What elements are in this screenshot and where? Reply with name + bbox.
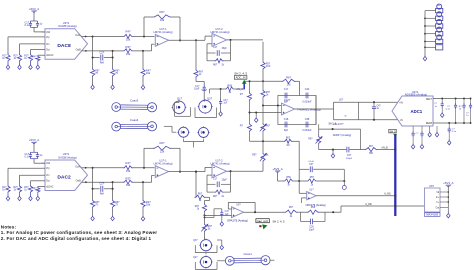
svg-text:0.1u: 0.1u <box>25 24 30 27</box>
svg-text:10k: 10k <box>146 71 151 75</box>
svg-text:1M: 1M <box>286 145 289 147</box>
svg-text:-IN: -IN <box>400 120 403 122</box>
svg-text:Coax1: Coax1 <box>243 252 252 256</box>
svg-text:OPA27$ (Analog): OPA27$ (Analog) <box>227 218 248 222</box>
svg-text:R3?: R3? <box>126 176 131 180</box>
svg-text:49.9: 49.9 <box>266 66 271 68</box>
svg-text:12k: 12k <box>160 18 165 22</box>
svg-text:C2?: C2? <box>99 182 104 186</box>
svg-text:15k: 15k <box>126 183 131 187</box>
svg-text:10uF: 10uF <box>194 88 200 90</box>
svg-text:R6?: R6? <box>308 139 313 141</box>
svg-text:OutB: OutB <box>76 48 82 51</box>
svg-text:R6?: R6? <box>213 196 218 198</box>
svg-text:C17: C17 <box>284 88 289 91</box>
svg-text:R66: R66 <box>227 84 232 87</box>
svg-text:MAX4165: MAX4165 <box>426 213 438 217</box>
svg-text:SH 2, 4, 5: SH 2, 4, 5 <box>234 72 247 76</box>
svg-text:0.1u: 0.1u <box>25 155 30 158</box>
svg-text:AD81? (Analog): AD81? (Analog) <box>333 133 352 137</box>
svg-text:R5?: R5? <box>289 207 294 209</box>
svg-text:R5?: R5? <box>310 177 315 179</box>
svg-text:LM741 (Analog): LM741 (Analog) <box>153 30 172 34</box>
svg-text:DAC8: DAC8 <box>57 43 71 49</box>
svg-text:Q2?: Q2? <box>207 97 213 101</box>
svg-text:Ref: Ref <box>100 192 104 196</box>
svg-text:nLDAC: nLDAC <box>46 185 54 188</box>
svg-text:Vdd: Vdd <box>46 32 51 34</box>
svg-text:C1?: C1? <box>213 178 218 180</box>
svg-text:U9?: U9? <box>236 205 241 207</box>
svg-text:R4?: R4? <box>32 57 37 59</box>
svg-text:OutA: OutA <box>75 34 81 37</box>
svg-text:Out: Out <box>46 48 50 51</box>
svg-text:R4?: R4? <box>126 161 131 165</box>
svg-text:LM741 (Analog): LM741 (Analog) <box>210 30 229 34</box>
svg-text:15k: 15k <box>126 52 131 56</box>
svg-text:R3?: R3? <box>126 45 131 49</box>
svg-text:10k: 10k <box>146 202 151 206</box>
svg-text:+5V3_A: +5V3_A <box>29 138 39 142</box>
svg-text:1uF: 1uF <box>225 214 230 216</box>
svg-text:Out: Out <box>46 180 50 183</box>
svg-text:DAC2: DAC2 <box>57 174 71 180</box>
svg-text:Out: Out <box>435 206 439 209</box>
svg-text:SH 2, 4, 5: SH 2, 4, 5 <box>273 219 285 223</box>
svg-text:Coax3: Coax3 <box>130 98 139 102</box>
svg-text:U1?: U1? <box>309 190 314 192</box>
svg-text:DAC_OUT: DAC_OUT <box>257 220 268 223</box>
svg-text:REFB: REFB <box>426 123 433 125</box>
svg-text:ADC1: ADC1 <box>411 109 423 114</box>
svg-text:C18: C18 <box>284 118 289 121</box>
svg-text:R6?: R6? <box>160 10 165 14</box>
svg-text:15k: 15k <box>126 169 131 173</box>
svg-text:ADC_IN: ADC_IN <box>236 76 246 80</box>
svg-text:R6?: R6? <box>369 146 374 148</box>
svg-text:Q4?: Q4? <box>193 257 198 259</box>
svg-text:R4?: R4? <box>32 188 37 190</box>
svg-text:ADS805 (Analog): ADS805 (Analog) <box>405 93 428 97</box>
svg-text:R6?: R6? <box>286 138 291 140</box>
svg-text:2. For DAC and ADC digital con: 2. For DAC and ADC digital configuration… <box>1 236 152 241</box>
svg-text:1uF: 1uF <box>223 102 228 104</box>
svg-text:220pF: 220pF <box>346 158 353 160</box>
svg-text:R6?: R6? <box>198 194 203 196</box>
svg-text:DAC88 (Analog): DAC88 (Analog) <box>58 157 76 160</box>
svg-text:+IN: +IN <box>399 102 403 104</box>
svg-text:C2?: C2? <box>99 50 104 54</box>
svg-text:0.033uF: 0.033uF <box>302 100 312 103</box>
svg-text:R4?: R4? <box>126 30 131 34</box>
svg-text:Q1?: Q1? <box>177 97 183 101</box>
svg-text:LM741 (Analog): LM741 (Analog) <box>153 161 172 165</box>
svg-text:Notes:: Notes: <box>1 225 17 230</box>
svg-text:R6?: R6? <box>160 141 165 145</box>
svg-text:R5?: R5? <box>252 154 257 157</box>
svg-text:R59: R59 <box>311 207 316 209</box>
svg-text:OutB: OutB <box>76 180 82 183</box>
svg-text:OutA: OutA <box>75 165 81 168</box>
svg-text:C36: C36 <box>309 227 314 229</box>
svg-text:+5V3_A: +5V3_A <box>272 167 282 171</box>
svg-text:R6?: R6? <box>213 65 218 67</box>
svg-text:Coax4: Coax4 <box>130 118 139 122</box>
svg-text:nLDAC: nLDAC <box>46 54 54 57</box>
svg-text:U12?: U12? <box>284 98 291 102</box>
svg-text:10pF: 10pF <box>309 229 315 231</box>
svg-text:+IN_B: +IN_B <box>381 148 388 150</box>
svg-text:LM741 (Analog): LM741 (Analog) <box>210 161 229 165</box>
svg-text:SH 2, 3: SH 2, 3 <box>329 124 337 126</box>
svg-text:Vdd: Vdd <box>46 163 51 165</box>
svg-text:C4?: C4? <box>347 155 352 157</box>
svg-text:0.1uF: 0.1uF <box>308 161 314 163</box>
svg-text:U2?: U2? <box>339 100 344 102</box>
svg-text:C3?: C3? <box>309 164 314 166</box>
svg-text:+5V3_A: +5V3_A <box>29 7 39 11</box>
svg-text:1. For Analog IC power configu: 1. For Analog IC power configurations, s… <box>1 230 157 235</box>
svg-text:A_IN1: A_IN1 <box>384 193 391 196</box>
svg-text:R56: R56 <box>286 177 291 179</box>
svg-text:In-: In- <box>437 202 440 204</box>
svg-text:12k: 12k <box>160 150 165 154</box>
svg-text:+5V3_A: +5V3_A <box>443 181 453 185</box>
svg-text:Q3?: Q3? <box>193 240 198 242</box>
svg-text:0.033uF: 0.033uF <box>302 129 312 132</box>
svg-text:Ref: Ref <box>100 60 104 64</box>
svg-text:SH 3: SH 3 <box>390 129 396 133</box>
svg-text:OPA27$ (Analog): OPA27$ (Analog) <box>306 203 326 207</box>
svg-text:DAC88 (Analog): DAC88 (Analog) <box>58 25 76 28</box>
svg-text:15pF: 15pF <box>222 180 228 182</box>
svg-text:R6?: R6? <box>286 75 291 79</box>
svg-text:C1?: C1? <box>213 47 218 49</box>
svg-text:C42: C42 <box>305 88 310 91</box>
svg-text:15k: 15k <box>126 38 131 42</box>
svg-text:A_IN2: A_IN2 <box>365 203 372 206</box>
svg-text:6pF: 6pF <box>284 129 289 132</box>
svg-text:C38: C38 <box>305 118 310 121</box>
svg-text:U6?: U6? <box>429 184 434 188</box>
svg-text:REFT: REFT <box>426 99 433 101</box>
svg-text:R6?: R6? <box>266 126 271 128</box>
svg-text:15pF: 15pF <box>222 48 228 50</box>
